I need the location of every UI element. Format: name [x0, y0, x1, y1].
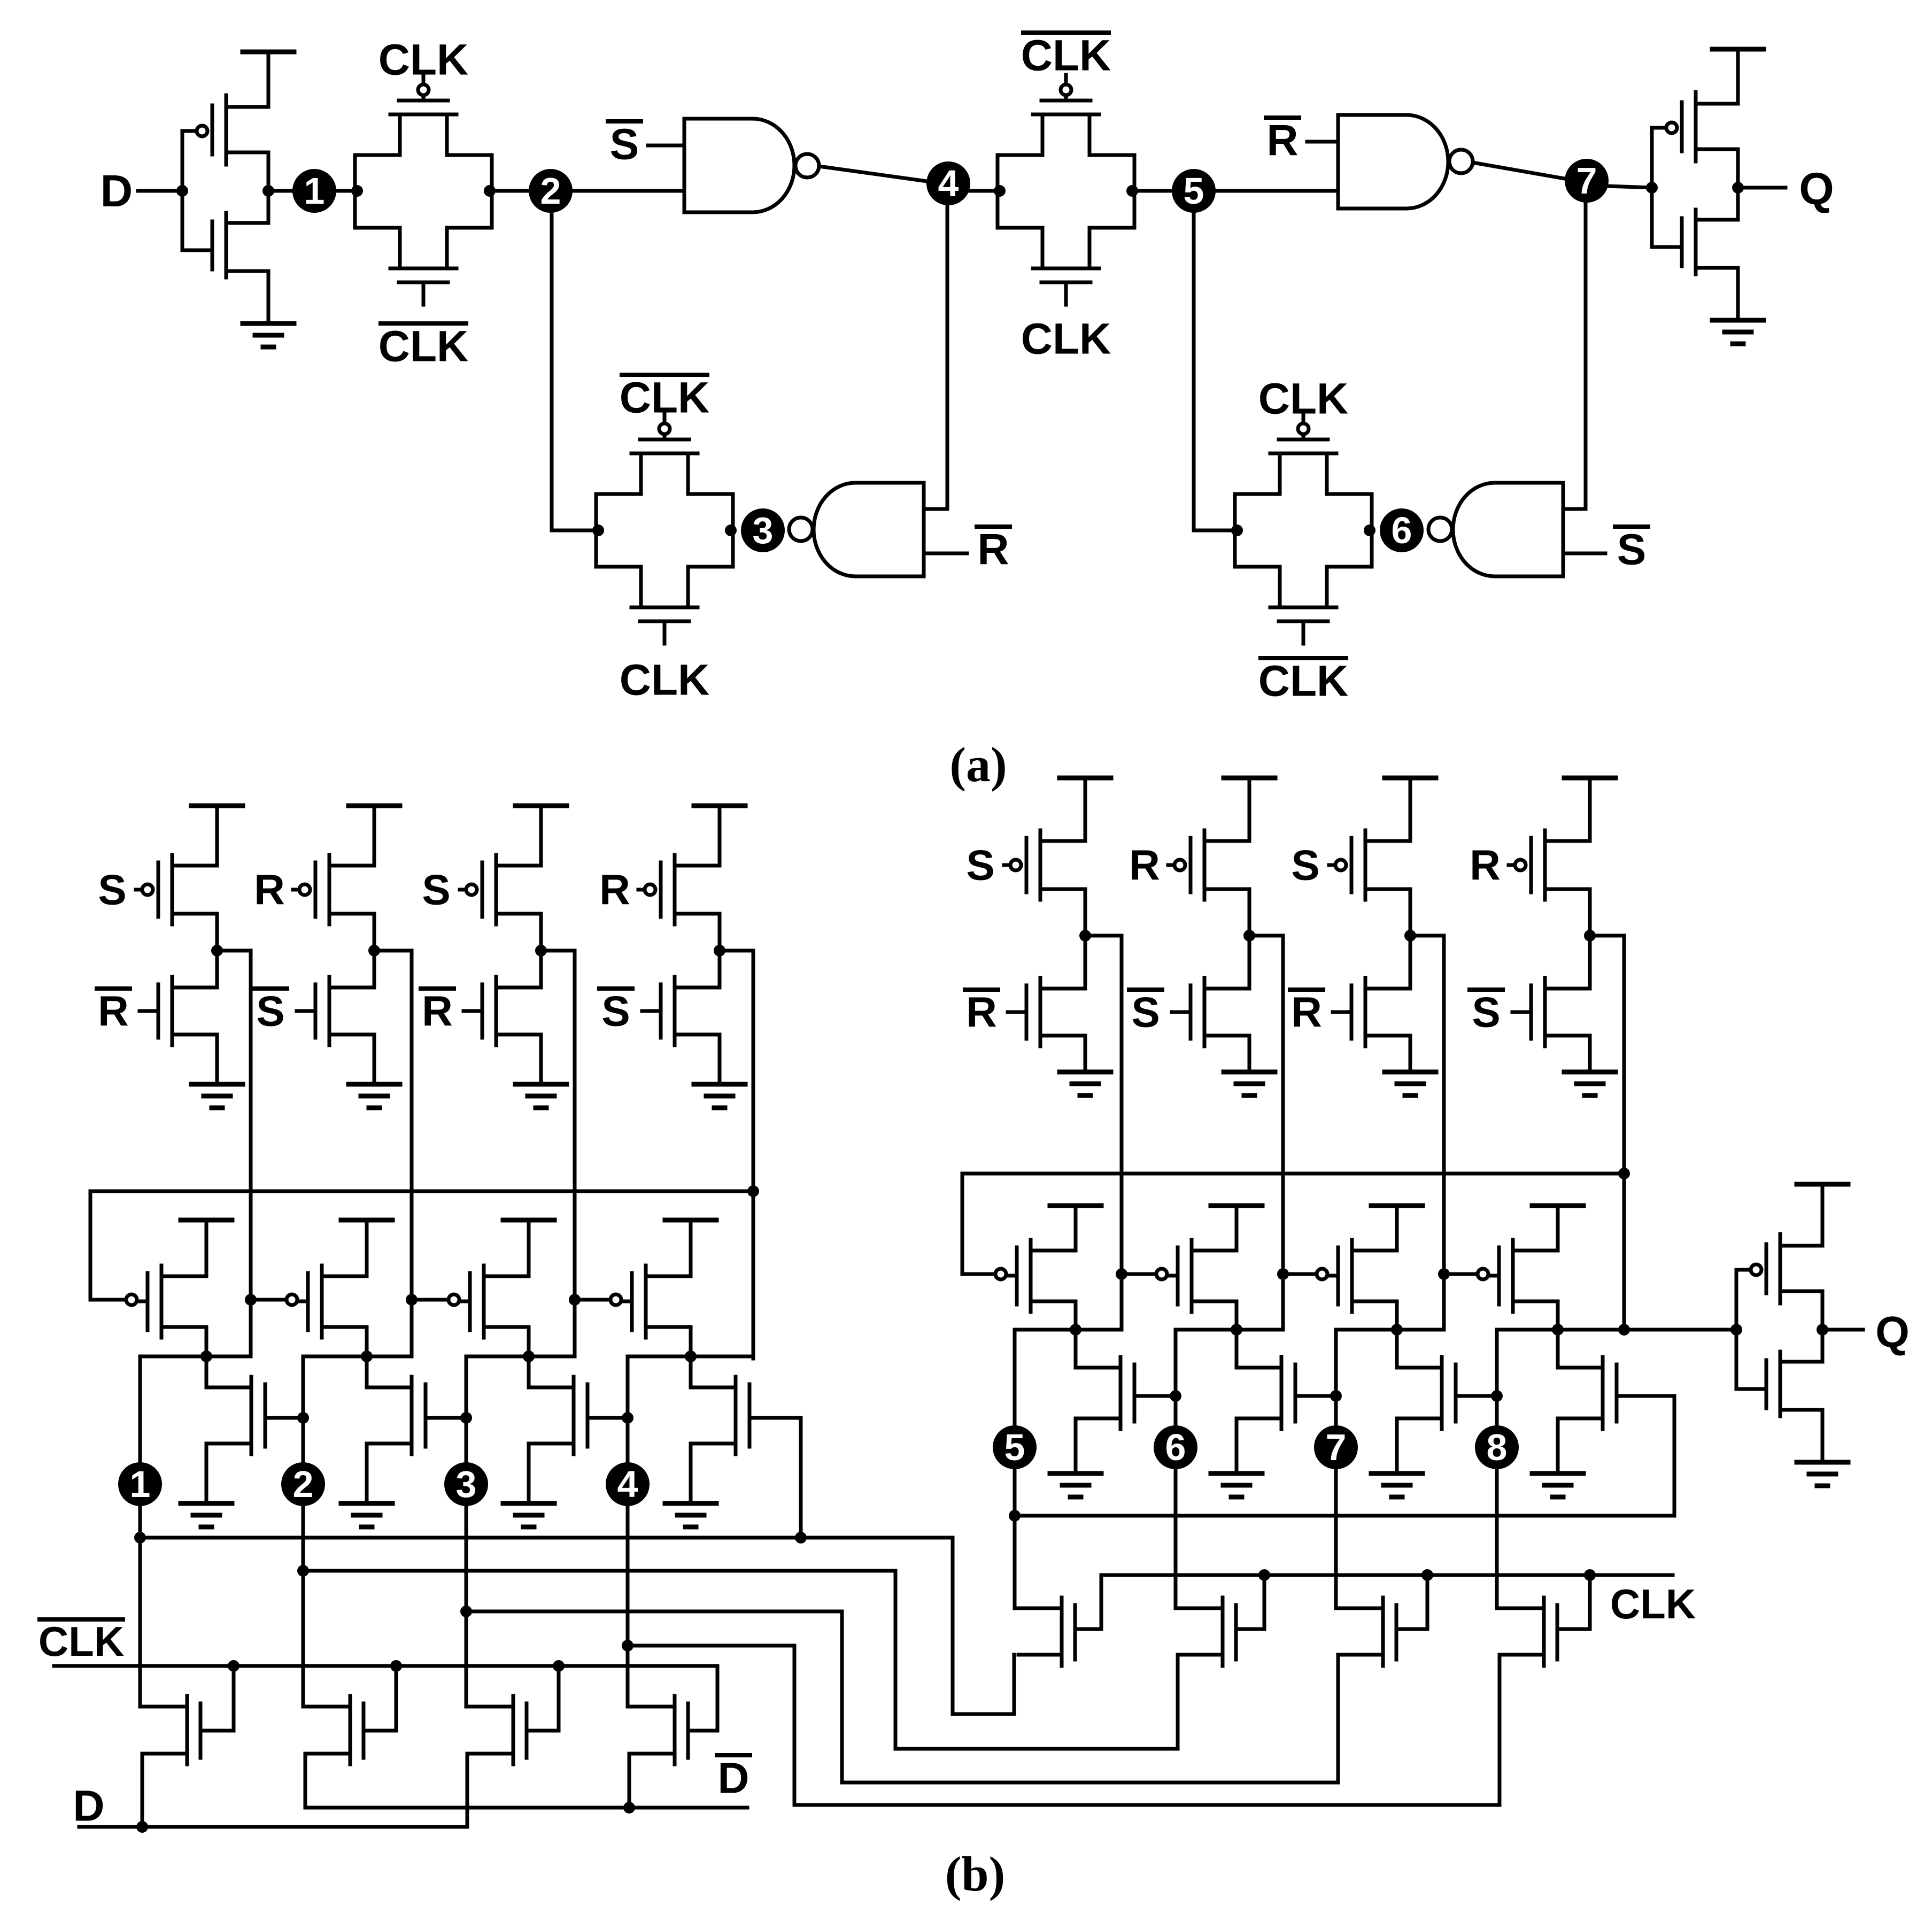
svg-text:CLK: CLK: [620, 374, 710, 422]
wire NMOS M1b gate to node 2 vertical: [265, 1416, 303, 1420]
feedback rail right group: [962, 1174, 1624, 1274]
bubble middle PMOS M8: [1478, 1269, 1488, 1279]
wire U1 output to node 1: [268, 189, 296, 193]
wire U2 output to Q: [1738, 186, 1786, 190]
transmission gate TG4: [1233, 494, 1237, 567]
node 3: [741, 508, 785, 552]
stack 4 left group (PMOS R, NMOS Sbar): [694, 804, 745, 808]
svg-text:S: S: [610, 120, 639, 169]
VDD stem middle PMOS M5: [1074, 1206, 1078, 1251]
gate junction dot column 7: [1438, 1268, 1450, 1280]
svg-text:CLK: CLK: [38, 1618, 124, 1665]
column wire 7 right group: [1442, 936, 1446, 1330]
node 5: [1172, 169, 1216, 213]
ground stem NMOS M4b: [689, 1444, 693, 1503]
svg-text:R: R: [422, 987, 453, 1035]
junction dot TG4 right: [1364, 524, 1375, 536]
junction dot TG1 left: [351, 185, 363, 197]
bubble middle PMOS M2: [287, 1294, 297, 1305]
pass NMOS P4 (CLKbar gated): [673, 1696, 677, 1764]
pass NMOS P4 drain elbow: [628, 1705, 675, 1709]
output elbow wire cell 1: [140, 1355, 251, 1359]
middle NMOS M3b left group: [572, 1377, 576, 1454]
junction dot TG3 left: [592, 524, 604, 536]
middle NMOS M7b right group: [1440, 1357, 1444, 1429]
wire column to PMOS M6 gate: [1122, 1272, 1156, 1276]
VDD stem middle PMOS M3: [527, 1220, 531, 1276]
junction dot U2 input: [1646, 182, 1658, 194]
drain wire M6: [1235, 1301, 1239, 1330]
node wire 3 down: [465, 1356, 468, 1707]
svg-text:3: 3: [456, 1463, 477, 1505]
middle PMOS M2 left group: [320, 1265, 324, 1338]
stack 8 right group (PMOS R, NMOS Sbar): [1564, 776, 1616, 781]
stack 3 left group (PMOS S, NMOS Rbar): [515, 804, 567, 808]
drain link NMOS M1b: [205, 1356, 208, 1387]
VDD stem middle PMOS M6: [1235, 1206, 1239, 1251]
transmission gate TG1: [353, 155, 357, 228]
bus wire node2: [303, 1571, 1178, 1749]
middle PMOS M7 right group: [1350, 1240, 1354, 1312]
middle PMOS M1 left group: [160, 1265, 164, 1338]
wire column to PMOS M2 gate: [251, 1298, 287, 1302]
gate junction dot column 5: [1116, 1268, 1127, 1280]
wire column to PMOS M3 gate: [412, 1298, 449, 1302]
bubble middle PMOS M4: [610, 1294, 621, 1305]
svg-text:7: 7: [1326, 1426, 1347, 1468]
svg-text:CLK: CLK: [1021, 315, 1111, 364]
gate junction dot column 2: [406, 1294, 418, 1306]
middle PMOS M6 right group: [1190, 1240, 1194, 1312]
wire node 7 to inverter U2: [1606, 186, 1652, 188]
pass NMOS P2 drain elbow: [303, 1705, 350, 1709]
wire NMOS M8b gate down to node5 bus: [1015, 1396, 1674, 1516]
drain link NMOS M8b: [1556, 1330, 1560, 1368]
column wire 3 left group: [573, 951, 577, 1356]
drain link NMOS M5b: [1074, 1330, 1078, 1368]
wire elbow to TG4: [1194, 529, 1235, 533]
CLKbar rail: [54, 1664, 717, 1668]
svg-text:6: 6: [1392, 510, 1412, 551]
stack 6 right group (PMOS R, NMOS Sbar): [1224, 776, 1275, 781]
gate wire P2 up to CLKbar rail: [395, 1666, 398, 1731]
drain link NMOS M6b: [1235, 1330, 1239, 1368]
gate wire P1 up to CLKbar rail: [232, 1666, 236, 1731]
middle NMOS M4b left group: [734, 1377, 738, 1454]
ground stem NMOS M3b: [527, 1444, 531, 1503]
source wire P4 to Dbar line: [628, 1754, 631, 1808]
NAND gate NAND3 (mirrored): [814, 483, 924, 576]
svg-text:R: R: [1470, 842, 1501, 889]
wire NMOS M5b gate to node 6 vertical: [1134, 1394, 1176, 1398]
svg-text:R: R: [1266, 117, 1298, 165]
node 6: [1154, 1425, 1197, 1469]
junction dot TG3 right: [725, 524, 737, 536]
bubble middle PMOS M7: [1317, 1269, 1327, 1279]
pass NMOS P1 (CLKbar gated): [186, 1696, 189, 1764]
pass NMOS P3 drain elbow: [466, 1705, 513, 1709]
pass NMOS P8 drain elbow: [1497, 1607, 1544, 1610]
svg-text:7: 7: [1576, 160, 1597, 202]
drain wire M8: [1556, 1301, 1560, 1330]
drain link NMOS M7b: [1395, 1330, 1399, 1368]
wire node 5 to NAND2 input: [1212, 189, 1338, 193]
node 3: [444, 1462, 488, 1506]
gate wire P8 up to CLK rail: [1588, 1575, 1592, 1629]
transmission gate TG3: [594, 494, 598, 567]
drain link NMOS M2b: [365, 1356, 369, 1387]
svg-text:CLK: CLK: [1021, 32, 1111, 80]
svg-text:(b): (b): [945, 1847, 1005, 1901]
svg-text:D: D: [73, 1782, 104, 1831]
stack 1 left group (PMOS S, NMOS Rbar): [191, 804, 243, 808]
VDD stem middle PMOS M1: [205, 1220, 208, 1276]
middle NMOS M8b right group: [1601, 1357, 1605, 1429]
wire NAND1 output to node 4: [819, 166, 931, 182]
svg-text:S: S: [1617, 526, 1647, 574]
wire node 1 to TG1: [333, 189, 357, 193]
svg-text:2: 2: [293, 1463, 314, 1505]
junction dot U3 output: [1817, 1324, 1828, 1336]
wire NMOS M2b gate to node 3 vertical: [426, 1416, 466, 1420]
svg-text:R: R: [599, 866, 630, 914]
wire D to inverter input: [138, 189, 182, 193]
wire NMOS M6b gate to node 7 vertical: [1295, 1394, 1336, 1398]
pass NMOS P6 (CLK gated): [1221, 1598, 1225, 1666]
gate wire P6 up to CLK rail: [1263, 1575, 1266, 1629]
svg-text:6: 6: [1165, 1426, 1186, 1468]
pass NMOS P2 (CLKbar gated): [349, 1696, 352, 1764]
output elbow wire cell 3: [466, 1355, 575, 1359]
svg-text:D: D: [101, 166, 133, 216]
junction dot inverter U1 output: [262, 185, 274, 197]
column wire 5 right group: [1120, 936, 1124, 1330]
ground stem NMOS M6b: [1235, 1418, 1239, 1473]
column wire 1 left group: [249, 951, 253, 1356]
wire NAND2 output to node 7: [1473, 163, 1567, 179]
wire node 4 to TG2: [965, 189, 998, 193]
svg-text:S: S: [256, 987, 284, 1035]
pass NMOS P5 (CLK gated): [1060, 1598, 1064, 1666]
svg-text:R: R: [98, 987, 129, 1035]
svg-text:D: D: [717, 1754, 749, 1803]
ground stem NMOS M2b: [365, 1444, 369, 1503]
svg-text:1: 1: [304, 170, 325, 212]
Q line from cell 8: [1497, 1328, 1736, 1332]
bubble middle PMOS M1: [126, 1294, 137, 1305]
node 7: [1314, 1425, 1358, 1469]
gate junction dot column 6: [1277, 1268, 1289, 1280]
NAND gate NAND2: [1338, 115, 1448, 209]
svg-text:S: S: [1472, 989, 1500, 1036]
svg-text:1: 1: [130, 1463, 151, 1505]
junction dot TG2 right: [1126, 185, 1138, 197]
pass NMOS P6 drain elbow: [1176, 1607, 1223, 1610]
bus wire node4: [628, 1646, 1500, 1805]
wire elbow to TG3: [552, 529, 596, 533]
svg-text:Q: Q: [1799, 164, 1834, 214]
VDD stem middle PMOS M4: [689, 1220, 693, 1276]
Dbar line: [305, 1806, 747, 1810]
node wire 1 down: [138, 1356, 142, 1707]
svg-text:CLK: CLK: [378, 322, 469, 371]
node 6: [1380, 508, 1424, 552]
node wire 2 down: [302, 1356, 305, 1707]
bubble middle PMOS M6: [1156, 1269, 1167, 1279]
inverter U3 (Q output of part b): [1735, 1270, 1738, 1389]
node wire 7 down: [1334, 1330, 1338, 1608]
junction dot TG1 right: [484, 185, 496, 197]
wire node 2 to NAND1 input: [569, 189, 684, 193]
svg-text:S: S: [966, 842, 994, 889]
output elbow wire cell 4: [628, 1355, 753, 1359]
middle PMOS M3 left group: [482, 1265, 486, 1338]
VDD stem middle PMOS M8: [1556, 1206, 1560, 1251]
drain wire M1: [205, 1327, 208, 1356]
output elbow wire cell 5: [1015, 1328, 1122, 1332]
NAND gate NAND1: [684, 119, 794, 212]
svg-text:R: R: [1291, 989, 1322, 1036]
bus wire node3: [466, 1611, 1338, 1782]
svg-text:R: R: [977, 526, 1009, 574]
drain link NMOS M4b: [689, 1356, 693, 1387]
node 2: [529, 169, 573, 213]
wire TG1 to node 2: [492, 189, 532, 193]
svg-text:CLK: CLK: [1258, 657, 1349, 706]
pass NMOS P8 (CLK gated): [1542, 1598, 1546, 1666]
node 4: [606, 1462, 650, 1506]
bus wire node1: [140, 1538, 1014, 1714]
wire NMOS M4b gate down to bus 1: [749, 1418, 801, 1538]
wire NMOS M7b gate to node 8 vertical: [1456, 1394, 1497, 1398]
column wire 4 left group: [752, 951, 755, 1359]
output elbow wire cell 2: [303, 1355, 412, 1359]
source wire P2 to Dbar line: [304, 1754, 307, 1808]
svg-text:4: 4: [938, 163, 959, 204]
ground stem NMOS M8b: [1556, 1418, 1560, 1473]
svg-text:4: 4: [617, 1463, 638, 1505]
ground stem NMOS M5b: [1074, 1418, 1078, 1473]
ground stem NMOS M1b: [205, 1444, 208, 1503]
wire node 5 down: [1192, 209, 1196, 530]
node 7: [1565, 159, 1609, 203]
junction dot column 4 on feedback rail: [747, 1185, 759, 1197]
ground stem NMOS M7b: [1395, 1418, 1399, 1473]
D line: [79, 1825, 467, 1829]
wire TG2 to node 5: [1134, 189, 1176, 193]
column wire 8 right group: [1622, 936, 1626, 1330]
node wire 6 down: [1174, 1330, 1178, 1608]
svg-text:CLK: CLK: [1610, 1580, 1696, 1627]
svg-text:S: S: [601, 987, 630, 1035]
drain wire M2: [365, 1327, 369, 1356]
middle PMOS M5 right group: [1029, 1240, 1033, 1312]
svg-text:5: 5: [1184, 170, 1204, 212]
drain wire M5: [1074, 1301, 1078, 1330]
middle NMOS M5b right group: [1119, 1357, 1123, 1429]
pass NMOS P7 drain elbow: [1336, 1607, 1383, 1610]
junction dot TG2 left: [994, 185, 1006, 197]
inverter U1 (D input): [181, 131, 184, 250]
junction dot inverter U1 input: [176, 185, 188, 197]
wire NAND3 top input up to node 4: [946, 203, 949, 509]
node 4: [926, 161, 970, 205]
svg-text:CLK: CLK: [1258, 375, 1349, 423]
gate wire P3 up to CLKbar rail: [557, 1666, 561, 1731]
junction dot column 8 on feedback rail: [1618, 1168, 1630, 1179]
svg-text:8: 8: [1487, 1426, 1508, 1468]
output elbow wire cell 6: [1176, 1328, 1283, 1332]
svg-text:5: 5: [1004, 1426, 1025, 1468]
gate junction dot column 1: [245, 1294, 257, 1306]
stack 7 right group (PMOS S, NMOS Rbar): [1385, 776, 1436, 781]
wire NAND4 top input up to node 7: [1584, 200, 1588, 509]
junction dot TG4 left: [1231, 524, 1243, 536]
node 1: [292, 169, 336, 213]
svg-text:R: R: [1129, 842, 1160, 889]
junction dot U2 output: [1732, 182, 1744, 194]
source wire P3 to D line: [466, 1754, 469, 1827]
bubble middle PMOS M5: [995, 1269, 1006, 1279]
column wire 2 left group: [410, 951, 414, 1356]
svg-text:S: S: [1131, 989, 1160, 1036]
svg-text:S: S: [1291, 842, 1319, 889]
middle NMOS M6b right group: [1280, 1357, 1284, 1429]
wire U3 output to Q: [1822, 1328, 1863, 1332]
node wire 5 down: [1013, 1330, 1017, 1608]
pass NMOS P5 drain elbow: [1015, 1607, 1062, 1610]
wire NMOS M3b gate to node 4 vertical: [588, 1416, 628, 1420]
node 1: [118, 1462, 162, 1506]
pass NMOS P3 (CLKbar gated): [512, 1696, 515, 1764]
stack 2 left group (PMOS R, NMOS Sbar): [349, 804, 400, 808]
column wire 6 right group: [1281, 936, 1285, 1330]
drain wire M7: [1395, 1301, 1399, 1330]
VDD stem middle PMOS M7: [1395, 1206, 1399, 1251]
drain link NMOS M3b: [527, 1356, 531, 1387]
middle PMOS M4 left group: [644, 1265, 648, 1338]
VDD stem middle PMOS M2: [365, 1220, 369, 1276]
output elbow wire cell 7: [1336, 1328, 1444, 1332]
svg-text:CLK: CLK: [620, 656, 710, 705]
node wire 4 down: [626, 1356, 630, 1707]
NAND gate NAND4 (mirrored): [1453, 483, 1563, 576]
svg-text:CLK: CLK: [378, 36, 469, 84]
pass NMOS P7 (CLK gated): [1381, 1598, 1385, 1666]
gate wire P5 corner from CLK rail: [1100, 1575, 1103, 1629]
wire column to PMOS M4 gate: [575, 1298, 610, 1302]
pass NMOS P1 drain elbow: [140, 1705, 187, 1709]
drain wire M4: [689, 1327, 693, 1356]
wire node 2 down: [550, 209, 554, 530]
svg-text:(a): (a): [949, 737, 1007, 792]
inverter U2 (Q output): [1650, 128, 1654, 247]
wire column to PMOS M7 gate: [1283, 1272, 1317, 1276]
gate junction dot column 3: [569, 1294, 581, 1306]
svg-text:Q: Q: [1875, 1308, 1910, 1357]
wire column to PMOS M8 gate: [1444, 1272, 1478, 1276]
node 8: [1475, 1425, 1519, 1469]
svg-text:S: S: [98, 866, 126, 914]
junction dot column 8 on Q line: [1618, 1324, 1630, 1336]
node 5: [993, 1425, 1037, 1469]
CLK rail: [1101, 1573, 1673, 1577]
svg-text:S: S: [422, 866, 450, 914]
svg-text:2: 2: [540, 170, 561, 212]
transmission gate TG2: [996, 155, 1000, 228]
middle PMOS M8 right group: [1511, 1240, 1515, 1312]
svg-text:3: 3: [753, 510, 774, 551]
node wire 8 down: [1495, 1330, 1499, 1608]
svg-text:R: R: [966, 989, 997, 1036]
middle NMOS M2b left group: [410, 1377, 414, 1454]
middle NMOS M1b left group: [250, 1377, 253, 1454]
svg-text:R: R: [254, 866, 285, 914]
source wire P1 to D line: [141, 1754, 144, 1827]
gate wire P4 corner from CLKbar rail: [716, 1666, 720, 1731]
node 2: [281, 1462, 325, 1506]
junction dot U3 input: [1730, 1324, 1742, 1336]
gate wire P7 up to CLK rail: [1426, 1575, 1429, 1629]
stack 5 right group (PMOS S, NMOS Rbar): [1060, 776, 1111, 781]
feedback rail left group: [90, 1191, 753, 1300]
bubble middle PMOS M3: [449, 1294, 459, 1305]
drain wire M3: [527, 1327, 531, 1356]
